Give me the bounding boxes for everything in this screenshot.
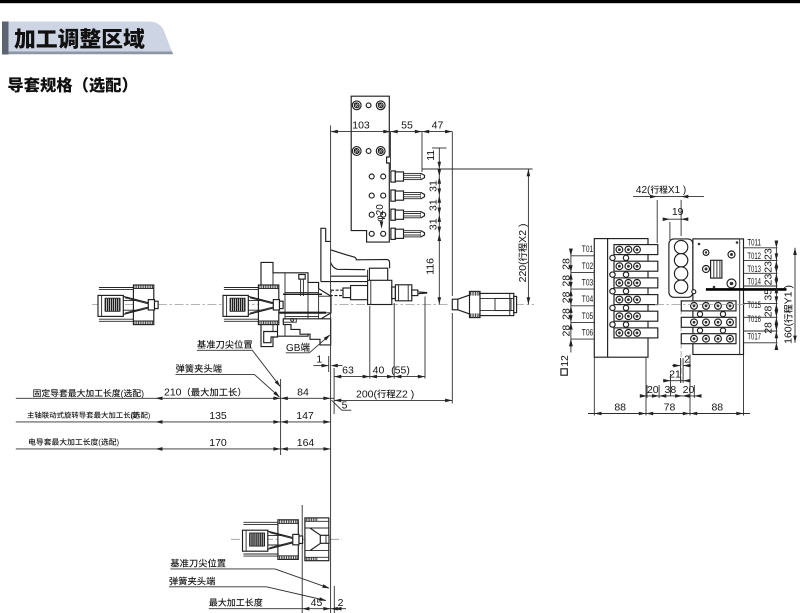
dimension 11 [438,148,440,305]
svg-text:170: 170 [209,437,227,449]
svg-text:31: 31 [427,218,439,230]
svg-text:28: 28 [560,258,572,270]
svg-text:T015: T015 [747,300,761,310]
drill tool T row 4 [391,228,395,239]
bottom label spring collet end [169,577,177,586]
svg-text:45: 45 [311,597,323,609]
left gang tool block [594,239,648,358]
svg-text:88: 88 [711,402,723,414]
collet chuck 1 [98,285,158,325]
svg-text:T03: T03 [582,278,593,288]
ext 103/55 [390,132,392,170]
svg-text:31: 31 [427,199,439,211]
top black strip [0,0,800,3]
current Y position heavy line [706,288,787,291]
svg-text:200(: 200( [356,388,378,400]
bottom view collet chuck [243,520,303,560]
dimension 103 [331,131,453,133]
bottom label reference tool tip position [171,559,180,567]
tool bar T04 [614,295,658,305]
svg-text:88: 88 [614,402,626,414]
tool bar T017 [681,334,736,344]
svg-text:11: 11 [425,150,437,161]
svg-text:210: 210 [164,387,182,399]
svg-text:28: 28 [560,275,572,287]
z-zero vertical [333,368,335,414]
dimension 42 X1 [633,196,704,198]
svg-text:160(: 160( [783,322,795,344]
svg-text:40: 40 [373,365,385,377]
dimension 116 [425,258,437,275]
svg-text:T014: T014 [747,277,761,287]
svg-text:1: 1 [316,354,322,366]
phi20 label [375,204,386,222]
bracket bottom staircase [283,319,330,345]
label reference tool tip position [197,340,206,348]
svg-text:84: 84 [297,387,309,399]
tool bar T01 [614,245,658,255]
dimension 31 labels [427,180,439,192]
svg-text:(: ( [121,388,124,398]
ext 55/47 [421,132,423,172]
center drill sleeve strip [669,239,693,297]
svg-text:(: ( [131,411,134,420]
dimension square 12 [561,369,567,375]
svg-text:103: 103 [352,120,370,132]
svg-text:147: 147 [296,410,314,422]
dimension 1 [314,365,329,367]
housing bore heavy lines [262,312,326,314]
spindle bracket arm [331,250,390,268]
svg-text:T017: T017 [747,332,761,342]
table row 2: spindle-synchronized rotary guide bushing max length [27,412,34,419]
tool tip plane vertical [451,132,453,296]
tool bar T03 [614,278,658,288]
svg-text:28: 28 [560,291,572,303]
svg-text:T06: T06 [582,328,593,338]
svg-text:T04: T04 [582,294,593,304]
svg-text:12: 12 [559,355,571,367]
table row 1: fixed guide bushing max length [33,389,40,397]
svg-text:63: 63 [342,365,354,377]
svg-text:78: 78 [664,402,676,414]
main spindle centerline [92,304,449,306]
title text 加工调整区域 [14,28,34,48]
tool bar T06 [614,328,658,338]
svg-text:T011: T011 [747,238,761,248]
reference plane vertical line [330,126,332,613]
svg-text:28: 28 [560,325,572,337]
dimension 200 Z2 [334,399,452,401]
svg-text:20: 20 [647,384,659,396]
bottom view guide bushing [305,518,329,561]
dimension 28 chain [570,250,572,353]
left lower staircase [264,325,278,343]
tool bar T05 [614,311,658,321]
live tool unit [343,288,351,298]
dimension 20/38/20 [640,395,700,397]
svg-text:47: 47 [432,120,444,132]
title banner [9,22,173,52]
spindle bracket flag [321,228,331,281]
svg-text:28: 28 [763,322,775,334]
dimension 160 Y1 [794,248,796,343]
svg-text:): ) [141,388,144,398]
aux vertical 1mm line [328,356,330,372]
live tool dashed shaft [331,290,343,295]
svg-text:55: 55 [401,120,413,132]
title banner shadow bar [2,22,9,55]
svg-text:): ) [148,411,150,420]
svg-text:(: ( [98,438,101,447]
live tool centerline [331,292,428,294]
svg-text:220(: 220( [517,261,529,283]
housing clamp screw [299,275,305,280]
dimension 63/40/(55) [334,376,425,378]
svg-text:T013: T013 [747,264,761,274]
guide bushing cross-section right [452,299,458,310]
dimension 88/78/88 [588,413,750,415]
svg-text:Z2 ): Z2 ) [396,388,415,400]
dimension 21 [663,380,690,382]
svg-text:23: 23 [763,248,775,260]
svg-text:GB: GB [286,343,301,354]
svg-text:31: 31 [427,180,439,192]
svg-text:19: 19 [672,206,684,218]
svg-text:T012: T012 [747,251,761,261]
svg-text:T05: T05 [582,311,593,321]
svg-text:164: 164 [297,437,315,449]
dimension 220 X2 [527,169,529,305]
svg-text:20: 20 [683,384,695,396]
drill tool T row 2 [391,190,395,201]
svg-text:23: 23 [763,274,775,286]
dimension 2 (strip) [680,358,682,383]
svg-text:38: 38 [665,384,677,396]
collet chuck 2 [223,285,283,325]
right block details [703,250,709,256]
svg-text:T02: T02 [582,261,593,271]
bottom view left plane [301,505,303,613]
svg-text:28: 28 [763,305,775,317]
dimension 5 leader [332,400,342,410]
svg-text:X1 ): X1 ) [668,185,686,196]
table row 3: electric guide bushing max length [29,438,36,445]
svg-text:116: 116 [425,258,437,275]
guide bushing housing [261,262,331,346]
svg-text:Y1 ): Y1 ) [783,285,795,304]
bottom view centerline [231,538,342,540]
drill tool T row 1 [391,171,395,182]
svg-text:42(: 42( [636,185,651,196]
plate mounting holes row y=105.3 [352,101,361,110]
svg-text:35: 35 [763,289,775,301]
svg-text:T016: T016 [747,314,761,324]
tool bar T02 [614,261,658,271]
bottom aux vertical 2mm [333,586,335,613]
x2 top reference line [422,168,533,170]
gang tool post side view plate [351,96,389,242]
svg-text:X2 ): X2 ) [517,224,529,243]
right view axis centerline [655,304,745,306]
svg-text:2: 2 [338,597,344,609]
svg-text:135: 135 [209,410,227,422]
drill tool T row 3 [391,209,395,220]
dimension 19 [663,218,688,220]
tool bar T015 [681,301,736,311]
svg-text:T01: T01 [582,244,593,254]
svg-text:28: 28 [560,308,572,320]
svg-text:φ20: φ20 [375,204,386,222]
subtitle 导套规格（选配） [8,77,23,92]
strip centerline [680,300,682,383]
dimension 23/35/28 chain [775,248,777,343]
label spring collet end [176,364,184,373]
bottom label max machining length + dims 45,2 [209,598,217,606]
plate mounting holes row y=151.0 [352,147,361,156]
collet end plane [280,379,282,455]
tool bar T016 [681,317,736,327]
svg-text:): ) [117,438,120,447]
svg-text:23: 23 [763,261,775,273]
right gang tool block [693,239,744,355]
svg-text:2: 2 [684,353,690,365]
svg-text:5: 5 [342,399,348,411]
